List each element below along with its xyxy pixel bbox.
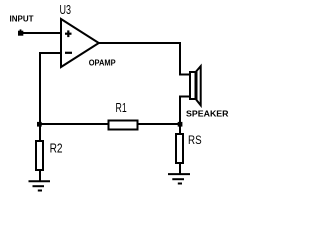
resistor R1: [109, 121, 138, 130]
wire speaker bottom: [180, 97, 190, 126]
resistor R2: [36, 141, 43, 170]
wire R2 bottom: [39, 170, 41, 181]
input terminal: [18, 29, 23, 35]
wire feedback vertical: [39, 52, 41, 125]
speaker SP1: [190, 66, 201, 105]
svg-text:INPUT: INPUT: [10, 15, 34, 24]
node right junction: [178, 122, 183, 127]
wire output: [98, 43, 190, 75]
svg-text:SPEAKER: SPEAKER: [186, 108, 229, 118]
svg-text:OPAMP: OPAMP: [89, 59, 117, 68]
wire RS bottom: [179, 163, 181, 174]
wire R1 row: [40, 123, 180, 125]
svg-text:RS: RS: [188, 133, 202, 147]
ground (RS): [168, 174, 190, 183]
ground (R2): [29, 181, 51, 190]
resistor RS: [176, 134, 183, 163]
wire - input: [40, 52, 62, 54]
node left junction: [37, 122, 42, 127]
op-amp U3: [61, 19, 99, 67]
wire input to +: [23, 32, 62, 34]
svg-text:R2: R2: [50, 141, 63, 155]
svg-text:R1: R1: [116, 101, 127, 115]
wire R2 top: [39, 124, 41, 141]
svg-text:U3: U3: [60, 3, 72, 17]
wire RS top: [179, 124, 181, 134]
